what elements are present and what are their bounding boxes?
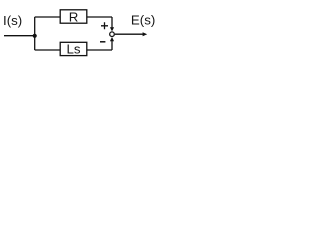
summing node circle — [110, 32, 115, 37]
wire R output — [87, 16, 112, 18]
wire corner up to summing node — [111, 41, 113, 50]
block Ls box — [60, 42, 87, 55]
svg-text:I(s): I(s) — [3, 13, 22, 28]
block R box — [60, 10, 87, 23]
arrowhead down into summing node — [110, 27, 114, 31]
svg-text:Ls: Ls — [66, 42, 80, 57]
arrowhead up into summing node — [110, 37, 114, 41]
wire to Ls block — [35, 49, 61, 51]
wire corner down to summing node — [111, 17, 113, 28]
wire to R block — [35, 16, 61, 18]
junction dot node — [33, 34, 37, 38]
wire branch vertical — [34, 17, 36, 50]
plus sign — [101, 22, 108, 29]
svg-text:R: R — [69, 9, 79, 24]
wire Ls output — [87, 49, 112, 51]
wire output E(s) — [115, 33, 143, 35]
svg-text:E(s): E(s) — [131, 13, 155, 28]
minus sign — [100, 41, 105, 43]
wire input I(s) — [4, 35, 35, 37]
arrowhead output — [143, 32, 148, 36]
